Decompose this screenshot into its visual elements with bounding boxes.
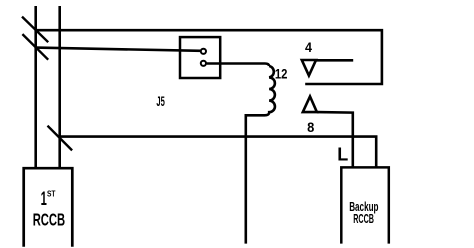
svg-text:RCCB: RCCB	[353, 212, 374, 226]
wire from coil bottom to middle vertical drop	[246, 115, 265, 243]
contact circle pin top	[201, 49, 206, 54]
breaker slash on bus 1 top	[22, 17, 48, 43]
svg-text:J5: J5	[156, 93, 165, 109]
svg-text:ST: ST	[47, 190, 56, 199]
wire from pin 8 down to backup RCCB	[317, 112, 353, 167]
connector pin 4 triangle	[302, 60, 316, 76]
breaker slash on bus 2	[48, 126, 73, 151]
breaker slash on bus 1 lower	[22, 34, 48, 60]
wire top run from bus 1 right then down and back left	[36, 30, 382, 84]
svg-text:4: 4	[305, 40, 312, 55]
svg-text:L: L	[337, 144, 348, 164]
wire stub at pin 4	[316, 59, 353, 62]
wire from bus 1 to connector contact	[36, 48, 201, 51]
contact circle pin bottom	[201, 61, 206, 66]
1st RCCB box (open bottom)	[24, 168, 73, 247]
inductor coil	[265, 66, 275, 115]
wire from lower contact to coil	[207, 64, 270, 67]
connector pin 8 triangle	[303, 96, 317, 112]
wire long horizontal run to backup RCCB	[60, 137, 377, 168]
wire bus line 2 (right vertical)	[58, 6, 61, 168]
svg-text:RCCB: RCCB	[33, 210, 65, 230]
backup RCCB box (open bottom)	[341, 167, 389, 243]
connector J5 box	[180, 37, 220, 78]
svg-text:8: 8	[307, 120, 315, 135]
wire bus line 1 (left vertical)	[34, 6, 37, 168]
svg-text:12: 12	[275, 66, 288, 81]
